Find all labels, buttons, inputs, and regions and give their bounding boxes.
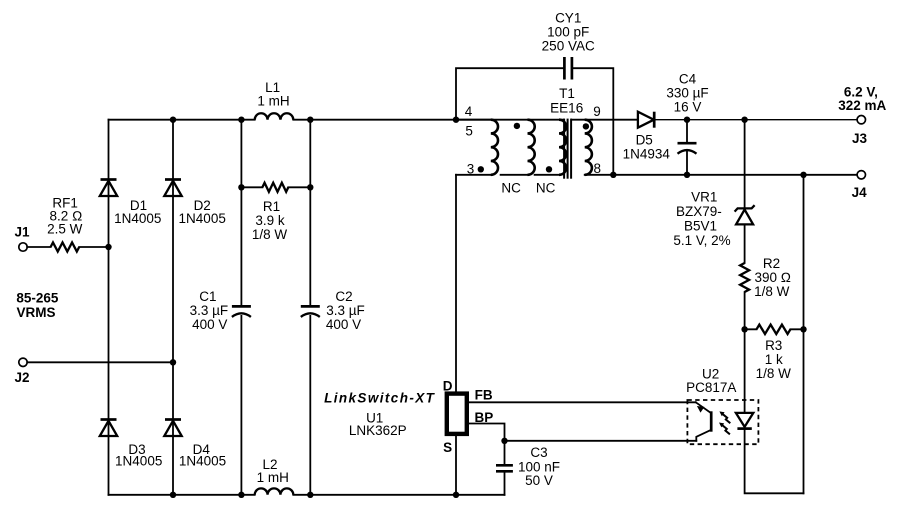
- svg-text:R2: R2: [763, 256, 780, 271]
- diode D5: [638, 112, 654, 128]
- svg-text:LNK362P: LNK362P: [349, 423, 407, 438]
- capacitor CY1: [456, 57, 613, 175]
- svg-text:3: 3: [467, 161, 475, 176]
- wire C3 vertical: [504, 441, 506, 495]
- LED U2: [736, 413, 753, 429]
- label C1 value: [190, 289, 229, 332]
- svg-text:1N4005: 1N4005: [179, 454, 226, 469]
- svg-text:NC: NC: [501, 181, 521, 196]
- capacitor C1: [232, 306, 251, 317]
- diode D3: [100, 420, 117, 437]
- node J1-D1 junction: [105, 244, 111, 250]
- svg-text:250 VAC: 250 VAC: [542, 38, 595, 53]
- svg-text:1N4005: 1N4005: [179, 211, 226, 226]
- svg-text:BZX79-: BZX79-: [676, 204, 722, 219]
- optocoupler U2 dashed box: [687, 400, 758, 444]
- svg-text:J4: J4: [852, 185, 868, 200]
- wire secondary output bottom: [613, 174, 857, 176]
- label RF1 value: [47, 195, 83, 236]
- node L1 left: [238, 117, 244, 123]
- label D1 value: [114, 198, 161, 226]
- node S junction: [453, 492, 459, 498]
- node CY1 pin 8 junction: [610, 172, 616, 178]
- resistor RF1: [51, 243, 80, 252]
- label C3 value: [518, 445, 560, 488]
- label C4 value: [666, 71, 708, 114]
- node primary pin 3 dot: [478, 166, 484, 172]
- node D4 bottom: [170, 492, 176, 498]
- svg-text:D: D: [443, 379, 453, 394]
- node L2 left: [238, 492, 244, 498]
- svg-text:VRMS: VRMS: [16, 305, 55, 320]
- svg-text:1N4005: 1N4005: [114, 211, 161, 226]
- svg-text:C3: C3: [530, 445, 547, 460]
- wire D1 D3 vertical: [108, 120, 110, 495]
- label D5 value: [623, 133, 671, 162]
- transformer T1 NC winding 1: [501, 120, 535, 175]
- wire BP: [469, 424, 696, 441]
- inductor L2: [255, 488, 294, 494]
- node VR1 top: [741, 117, 747, 123]
- connector J2: [19, 358, 27, 366]
- svg-text:LinkSwitch-XT: LinkSwitch-XT: [324, 390, 436, 405]
- svg-text:8: 8: [593, 161, 601, 176]
- node secondary dot: [583, 123, 589, 129]
- svg-text:1/8 W: 1/8 W: [252, 227, 288, 242]
- diode D2: [164, 180, 181, 197]
- label C2 value: [326, 289, 365, 332]
- svg-text:R3: R3: [765, 338, 782, 353]
- node J4 branch: [800, 172, 806, 178]
- resistor R3: [745, 325, 804, 334]
- wire J4 feedback vertical: [803, 175, 805, 494]
- wire U1 source: [455, 436, 457, 495]
- label D3 value: [115, 442, 162, 469]
- wire C1 vertical: [240, 120, 242, 495]
- node R3 right: [800, 326, 806, 332]
- svg-text:CY1: CY1: [555, 10, 581, 25]
- svg-text:3.9 k: 3.9 k: [255, 213, 285, 228]
- svg-text:C4: C4: [679, 71, 697, 86]
- wire C2 vertical: [309, 120, 311, 495]
- connector J4: [857, 171, 865, 179]
- svg-text:322 mA: 322 mA: [838, 98, 886, 113]
- svg-text:85-265: 85-265: [16, 290, 59, 305]
- transformer T1 NC winding 2: [535, 120, 567, 175]
- transformer T1 core: [564, 119, 571, 179]
- node BP junction: [501, 438, 507, 444]
- svg-text:J2: J2: [14, 370, 29, 385]
- wire top DC bus: [109, 119, 564, 121]
- svg-text:1N4934: 1N4934: [623, 147, 671, 162]
- node L1 right: [307, 117, 313, 123]
- svg-text:2.5 W: 2.5 W: [47, 222, 83, 237]
- label L1 value: [257, 80, 289, 109]
- label L2 value: [257, 457, 289, 485]
- capacitor C3: [496, 465, 513, 471]
- svg-text:5: 5: [465, 123, 473, 138]
- svg-text:EE16: EE16: [550, 100, 583, 115]
- svg-text:R1: R1: [263, 199, 280, 214]
- svg-text:3.3 µF: 3.3 µF: [190, 303, 229, 318]
- photon arrows U2: [719, 411, 730, 434]
- node C4 top: [684, 117, 690, 123]
- svg-text:1/8 W: 1/8 W: [756, 366, 792, 381]
- wire J1 input: [27, 246, 108, 248]
- svg-text:J3: J3: [852, 131, 868, 146]
- label R2 value: [754, 256, 791, 299]
- svg-text:100 pF: 100 pF: [547, 24, 589, 39]
- label D2 value: [179, 198, 226, 226]
- capacitor C4: [678, 143, 697, 154]
- IC U1 LNK362P: [447, 394, 467, 434]
- diode D1: [100, 180, 117, 197]
- label R3 value: [756, 338, 792, 381]
- svg-text:BP: BP: [475, 410, 494, 425]
- label output rating: [838, 84, 886, 113]
- svg-text:50 V: 50 V: [525, 473, 553, 488]
- svg-text:PC817A: PC817A: [686, 380, 736, 395]
- capacitor C2: [301, 306, 320, 317]
- svg-text:400 V: 400 V: [326, 317, 361, 332]
- svg-text:400 V: 400 V: [192, 317, 227, 332]
- resistor R1: [241, 183, 310, 192]
- node primary top pin 4: [453, 117, 459, 123]
- node R3 left: [741, 326, 747, 332]
- node NC1 dot: [514, 123, 520, 129]
- wire FB: [469, 401, 696, 403]
- svg-text:J1: J1: [14, 225, 30, 240]
- phototransistor U2: [696, 402, 711, 441]
- label R1 value: [252, 199, 288, 242]
- node NC2 dot: [546, 166, 552, 172]
- node J2-D2 junction: [170, 359, 176, 365]
- node D2 top: [170, 117, 176, 123]
- wire VR1 R2 branch: [744, 120, 746, 330]
- wire U1 drain: [455, 175, 457, 392]
- svg-text:VR1: VR1: [691, 190, 717, 205]
- svg-text:1 mH: 1 mH: [257, 470, 289, 485]
- label D4 value: [179, 442, 226, 469]
- label U1 value: [349, 410, 407, 438]
- svg-text:100 nF: 100 nF: [518, 459, 560, 474]
- svg-text:5.1 V, 2%: 5.1 V, 2%: [673, 233, 730, 248]
- svg-text:1/8 W: 1/8 W: [754, 284, 790, 299]
- label CY1 value: [542, 10, 595, 53]
- node C4 bottom: [684, 172, 690, 178]
- svg-text:330 µF: 330 µF: [666, 85, 708, 100]
- svg-text:NC: NC: [536, 181, 556, 196]
- label VR1 value: [673, 190, 730, 248]
- connector J3: [857, 116, 865, 124]
- wire secondary output top: [654, 119, 857, 121]
- svg-text:9: 9: [593, 104, 601, 119]
- label U2 value: [686, 366, 736, 394]
- transformer T1 secondary winding: [572, 120, 638, 175]
- svg-text:1 mH: 1 mH: [257, 93, 289, 108]
- wire LED branch: [745, 329, 804, 493]
- node L2 right: [307, 492, 313, 498]
- wire J2 input: [27, 361, 173, 363]
- diode D4: [164, 420, 181, 437]
- wire D2 D4 vertical: [172, 120, 174, 495]
- transformer T1 primary winding: [456, 120, 498, 175]
- resistor R2: [740, 263, 749, 292]
- svg-text:D5: D5: [636, 133, 653, 148]
- svg-text:16 V: 16 V: [674, 99, 702, 114]
- connector J1: [19, 243, 27, 251]
- wire bottom rail: [109, 494, 505, 496]
- svg-text:C2: C2: [335, 289, 352, 304]
- svg-text:C1: C1: [199, 289, 216, 304]
- svg-text:T1: T1: [559, 86, 575, 101]
- svg-text:FB: FB: [475, 387, 493, 402]
- node R1 right: [307, 184, 313, 190]
- svg-text:3.3 µF: 3.3 µF: [326, 303, 365, 318]
- svg-text:390 Ω: 390 Ω: [754, 270, 791, 285]
- label input voltage: [16, 290, 59, 320]
- svg-text:1 k: 1 k: [765, 352, 783, 367]
- svg-text:B5V1: B5V1: [684, 218, 717, 233]
- svg-text:S: S: [443, 440, 452, 455]
- label T1 EE16: [550, 86, 583, 116]
- svg-text:1N4005: 1N4005: [115, 454, 162, 469]
- zener diode VR1: [735, 205, 755, 224]
- inductor L1: [255, 113, 294, 119]
- wire C4 vertical: [686, 120, 688, 175]
- node R1 left: [238, 184, 244, 190]
- svg-text:4: 4: [465, 104, 473, 119]
